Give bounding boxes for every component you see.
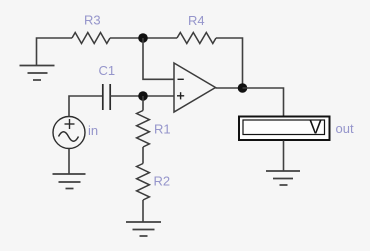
ground (below voltmeter) — [266, 171, 300, 185]
wire voltmeter to ground — [283, 141, 285, 172]
wire R1 to R2 — [142, 147, 144, 164]
wire R3 to R4 — [110, 37, 177, 39]
op-amp U1 — [174, 63, 216, 112]
resistor R1 — [137, 111, 171, 148]
node B (input junction) — [138, 91, 148, 101]
AC source V1 — [53, 117, 98, 149]
wire op-amp output — [216, 87, 243, 89]
wire source to capacitor — [69, 96, 102, 117]
resistor R2 — [137, 164, 171, 201]
svg-text:R2: R2 — [154, 174, 171, 189]
svg-text:R1: R1 — [154, 122, 171, 137]
svg-text:V: V — [309, 118, 321, 138]
svg-text:R3: R3 — [84, 13, 101, 28]
wire R2 to ground — [142, 200, 144, 222]
node A (R3/R4/feedback junction) — [138, 33, 148, 43]
svg-text:in: in — [88, 123, 98, 138]
wire source to ground — [68, 149, 70, 175]
svg-text:out: out — [336, 121, 354, 136]
resistor R3 — [72, 13, 110, 44]
wire node A to inverting input — [143, 38, 174, 79]
node C (output junction) — [238, 83, 248, 93]
wire node B to R1 — [142, 96, 144, 111]
wire output node to voltmeter — [243, 88, 284, 116]
ground (below source) — [53, 174, 86, 189]
ground (below R2) — [126, 222, 161, 236]
wire from top-left ground to R3 — [37, 38, 73, 66]
svg-text:C1: C1 — [99, 63, 116, 78]
voltmeter M1 — [239, 117, 354, 141]
svg-text:R4: R4 — [188, 13, 205, 28]
ground (top left) — [20, 66, 55, 81]
capacitor C1 — [99, 63, 116, 110]
wire capacitor to non-inverting input — [110, 95, 174, 97]
wire R4 to output node — [216, 38, 243, 88]
resistor R4 — [177, 13, 216, 44]
